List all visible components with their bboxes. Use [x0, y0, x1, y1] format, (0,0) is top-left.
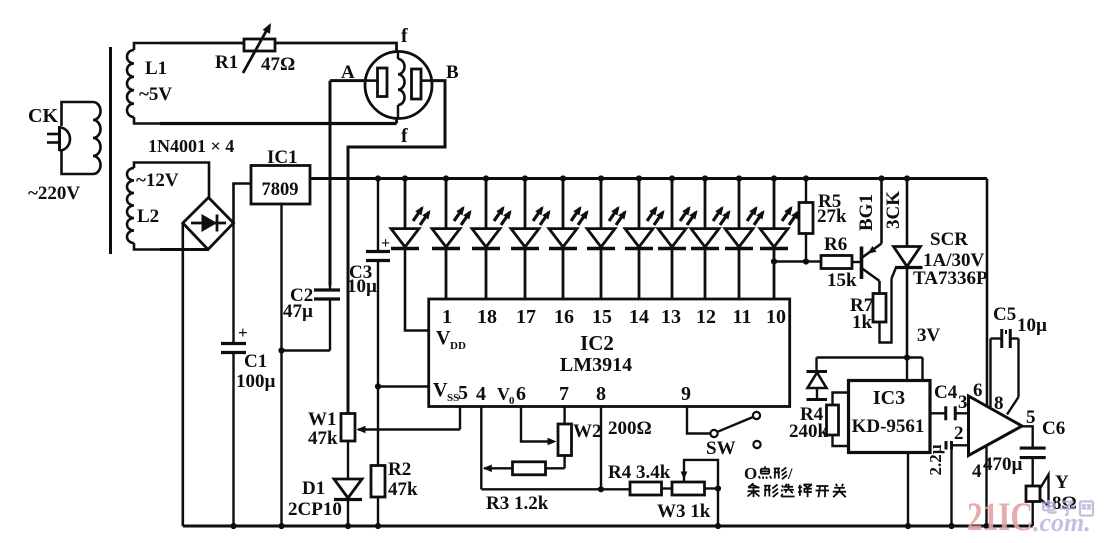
node SCR anode rail: [904, 175, 910, 181]
svg-text:V: V: [433, 379, 448, 401]
node D1 ground: [345, 523, 351, 529]
node 3V: [904, 354, 910, 360]
wire 9V top rail from IC1 to amplifier: [310, 179, 987, 407]
resistor R6 15k: [806, 256, 861, 269]
svg-text:L1: L1: [145, 58, 167, 79]
svg-text:10µ: 10µ: [347, 276, 377, 297]
svg-text:W3 1k: W3 1k: [657, 501, 711, 522]
capacitor C5 10u: [991, 329, 1019, 415]
node LED5 anode on rail: [560, 175, 566, 181]
svg-text:200Ω: 200Ω: [608, 418, 652, 439]
svg-text:8: 8: [596, 383, 606, 405]
svg-text:47k: 47k: [308, 428, 338, 449]
watermark dianziwang: [1043, 500, 1093, 516]
wire pin4/pin8 bottom bus: [481, 488, 630, 490]
svg-text:11: 11: [733, 306, 752, 328]
node IC3 ground: [905, 523, 911, 529]
svg-text:3V: 3V: [917, 325, 941, 346]
diode at IC3 supply: [807, 372, 828, 400]
node LED1 anode on rail: [402, 175, 408, 181]
wire bridge minus to ground rail: [182, 223, 185, 526]
resistor R2 47k: [371, 387, 385, 527]
LED4: [511, 179, 551, 300]
potentiometer W1 47k: [341, 414, 460, 442]
diode D1 2CP10: [334, 441, 362, 526]
wire C3/R2 junction to IC2 Vss: [378, 385, 429, 387]
wire amplifier pin4 to ground: [985, 446, 987, 526]
svg-text:2CP10: 2CP10: [288, 499, 342, 520]
mains plug CK: [47, 126, 70, 151]
svg-text:15: 15: [592, 306, 612, 328]
wire IC3 ground: [907, 453, 909, 527]
secondary winding L1: [127, 43, 160, 124]
svg-text:V: V: [436, 327, 451, 349]
IC2 bottom pin numbers: [458, 382, 691, 407]
svg-text:f: f: [401, 25, 408, 47]
svg-text:240k: 240k: [789, 421, 829, 442]
svg-text:SW: SW: [706, 438, 736, 459]
LED1: [391, 179, 431, 331]
node BG1 collector rail: [878, 175, 884, 181]
svg-text:2.2µ: 2.2µ: [926, 444, 945, 475]
IC2 LM3914 box: [429, 299, 790, 407]
node IC1 gnd / C2 junction: [278, 347, 284, 353]
node LED7 anode on rail: [636, 175, 642, 181]
wire R1 to tube top f: [275, 43, 397, 53]
wire L1 top to R1: [160, 42, 244, 45]
svg-text:SCR: SCR: [930, 229, 968, 250]
LED6: [587, 179, 627, 300]
capacitor 2.2u at pin2: [946, 441, 969, 526]
svg-text:O: O: [744, 464, 757, 483]
electrolytic capacitor C1 100u: [221, 223, 248, 526]
node LED6 anode on rail: [598, 175, 604, 181]
svg-text:C5: C5: [993, 304, 1016, 325]
label Vss: [433, 379, 459, 404]
IC2 top pin numbers: [442, 306, 786, 328]
wire pin9 to switch: [687, 407, 711, 434]
label Vdd: [436, 327, 466, 352]
node LED3 anode on rail: [483, 175, 489, 181]
svg-text:TA7336P: TA7336P: [913, 268, 988, 289]
node W3 ground: [715, 523, 721, 529]
node LED8 anode on rail: [669, 175, 675, 181]
svg-text:f: f: [401, 125, 408, 147]
svg-text:21IC: 21IC: [967, 494, 1033, 539]
node LED11 cathode junction: [771, 258, 777, 264]
LED8: [658, 179, 698, 300]
svg-text:IC1: IC1: [267, 147, 298, 168]
node R5 top rail: [803, 175, 809, 181]
svg-text:470µ: 470µ: [983, 454, 1023, 475]
potentiometer W3 1k: [672, 460, 718, 495]
svg-text:R2: R2: [388, 459, 411, 480]
svg-text:IC2: IC2: [580, 331, 614, 355]
wire node B down to W1: [348, 81, 445, 414]
svg-text:W1: W1: [308, 409, 337, 430]
resistor R5 27k: [799, 179, 813, 262]
svg-text:7: 7: [559, 383, 569, 405]
wire L2 top to bridge: [160, 163, 209, 198]
watermark .com: [1033, 508, 1091, 537]
svg-text:27k: 27k: [817, 206, 847, 227]
svg-text:~220V: ~220V: [28, 183, 80, 204]
svg-text:1N4001 × 4: 1N4001 × 4: [148, 136, 234, 156]
node pin4 ground: [983, 523, 989, 529]
node W3 right: [715, 485, 721, 491]
svg-text:5: 5: [1026, 407, 1036, 428]
svg-text:DD: DD: [450, 340, 466, 352]
svg-text:B: B: [446, 62, 459, 83]
svg-text:KD-9561: KD-9561: [852, 416, 925, 437]
svg-text:1: 1: [442, 306, 452, 328]
node pin8 junction: [598, 486, 604, 492]
resistor R4 240k: [827, 393, 849, 447]
wire L2 bottom to bridge: [160, 248, 208, 251]
svg-text:C6: C6: [1042, 418, 1065, 439]
resistor R4 3.4k: [630, 482, 672, 495]
svg-text:1k: 1k: [852, 312, 873, 333]
wire pin4 down: [480, 407, 482, 490]
wire W3 to ground: [717, 489, 719, 527]
node LED4 anode on rail: [522, 175, 528, 181]
voltage regulator IC1 7809: [251, 166, 310, 205]
node R2 ground: [375, 523, 381, 529]
svg-text:10µ: 10µ: [1017, 315, 1047, 336]
wire IC1 ground pin: [280, 203, 282, 527]
svg-text:~5V: ~5V: [139, 84, 172, 105]
rheostat R1 47ohm: [243, 23, 275, 73]
svg-text:/: /: [787, 466, 793, 483]
svg-text:7809: 7809: [262, 180, 299, 200]
svg-text:C1: C1: [244, 351, 267, 372]
label O dot/bar selection switch line1: [744, 464, 793, 483]
LED2: [432, 179, 472, 300]
svg-text:4: 4: [972, 461, 982, 482]
audio amplifier TA7336P triangle: [969, 396, 1023, 456]
watermark 21IC: [967, 494, 1033, 539]
ground rail: [183, 525, 1033, 528]
wire bridge plus to IC1 input: [234, 184, 252, 224]
LED7: [625, 179, 665, 300]
svg-text:R3 1.2k: R3 1.2k: [486, 493, 549, 514]
svg-text:3: 3: [958, 392, 968, 413]
label dot/bar selection switch line2: [748, 483, 847, 497]
svg-text:Y: Y: [1055, 472, 1069, 493]
transistor BG1 3CK: [862, 179, 882, 294]
svg-text:CK: CK: [28, 105, 58, 127]
svg-text:C4: C4: [934, 382, 958, 403]
svg-text:BG1: BG1: [856, 194, 877, 231]
node R5 bottom junction: [803, 258, 809, 264]
svg-text:R6: R6: [824, 234, 847, 255]
svg-text:13: 13: [661, 306, 681, 328]
svg-text:15k: 15k: [827, 270, 857, 291]
electron tube with plates A,B and heater f: [365, 52, 432, 119]
wire 3V node to diode and IC3: [817, 358, 923, 381]
svg-text:47Ω: 47Ω: [261, 54, 295, 75]
svg-text:IC3: IC3: [873, 387, 905, 409]
svg-text:14: 14: [629, 306, 649, 328]
svg-text:R1: R1: [215, 52, 238, 73]
switch SW: [710, 412, 760, 448]
svg-text:2: 2: [954, 423, 964, 444]
LED3: [472, 179, 512, 300]
IC3 KD-9561 box: [849, 381, 931, 453]
wire pin6 to W2 wiper: [521, 407, 557, 446]
wire pin5 output: [1022, 426, 1033, 447]
wire pin8 down: [600, 407, 602, 490]
svg-text:9: 9: [681, 383, 691, 405]
svg-text:3CK: 3CK: [883, 191, 904, 229]
svg-text:LM3914: LM3914: [560, 354, 632, 376]
node C1 ground: [230, 523, 236, 529]
node Vss junction: [375, 383, 381, 389]
svg-text:47k: 47k: [388, 479, 418, 500]
svg-text:10: 10: [766, 306, 786, 328]
bridge rectifier 1N4001x4: [183, 198, 234, 250]
node LED9 anode on rail: [702, 175, 708, 181]
svg-text:6: 6: [973, 380, 983, 401]
electrolytic capacitor C6 470u: [1020, 448, 1046, 485]
capacitor C4: [930, 406, 969, 420]
LED9: [691, 179, 731, 300]
svg-text:6: 6: [516, 383, 526, 405]
node LED10 anode on rail: [736, 175, 742, 181]
secondary winding L2: [127, 163, 160, 250]
node IC1 gnd ground: [278, 523, 284, 529]
svg-text:D1: D1: [302, 478, 325, 499]
wire L1 bottom to tube bottom f: [160, 118, 397, 124]
svg-text:R4 3.4k: R4 3.4k: [608, 462, 671, 483]
resistor R3 1.2k: [483, 462, 565, 475]
svg-text:+: +: [381, 235, 390, 252]
wire node A down to C2: [330, 81, 366, 286]
node LED11 anode on rail: [771, 175, 777, 181]
node 2.2u ground: [948, 523, 954, 529]
node C3 on top rail: [375, 175, 381, 181]
svg-text:5: 5: [458, 382, 468, 404]
svg-text:+: +: [238, 323, 248, 342]
LED10: [725, 179, 765, 300]
svg-text:0: 0: [509, 395, 515, 407]
svg-text:.com.: .com.: [1033, 508, 1091, 537]
svg-text:18: 18: [477, 306, 497, 328]
resistor R7 1k: [873, 279, 892, 343]
wire W1 wiper to IC2 pin5: [459, 407, 461, 430]
svg-text:8: 8: [994, 393, 1004, 414]
svg-text:L2: L2: [137, 206, 159, 227]
svg-text:W2: W2: [573, 421, 602, 442]
svg-text:16: 16: [554, 306, 574, 328]
svg-text:17: 17: [516, 306, 536, 328]
svg-text:47µ: 47µ: [283, 301, 313, 322]
transformer primary winding: [62, 102, 101, 174]
wire LED11 to R5/R6 junction: [774, 260, 806, 262]
thyristor SCR 1A/30V: [892, 179, 923, 358]
svg-text:100µ: 100µ: [236, 371, 276, 392]
svg-text:4: 4: [476, 383, 486, 405]
electrolytic capacitor C2 47u: [282, 286, 341, 351]
svg-text:~12V: ~12V: [136, 170, 179, 191]
LED11: [760, 179, 800, 300]
electrolytic capacitor C3 10u: [366, 179, 390, 387]
potentiometer W2 200ohm: [558, 407, 572, 469]
svg-text:12: 12: [696, 306, 716, 328]
transformer core: [109, 47, 112, 254]
LED5: [549, 179, 589, 300]
speaker Y 8ohm: [1026, 475, 1049, 527]
node LED2 anode on rail: [443, 175, 449, 181]
